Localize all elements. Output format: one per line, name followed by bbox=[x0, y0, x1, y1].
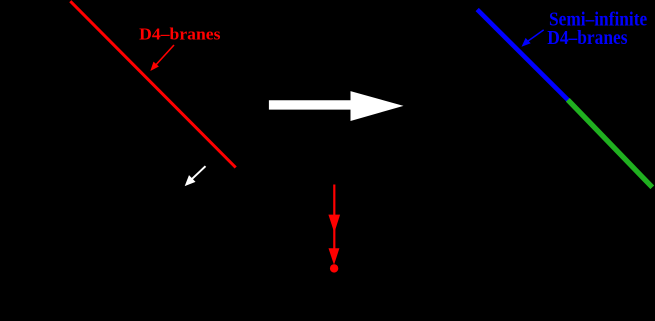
D4-brane red diagonal line bbox=[70, 1, 235, 167]
red double-head down arrow bbox=[328, 185, 340, 273]
svg-text:D4–branes: D4–branes bbox=[139, 25, 221, 44]
svg-text:D4–branes: D4–branes bbox=[547, 28, 628, 49]
red label arrow bbox=[150, 45, 174, 71]
green line continuation bbox=[568, 100, 653, 188]
big white arrow bbox=[269, 91, 404, 121]
small white arrow bbox=[185, 166, 206, 186]
blue label arrow bbox=[522, 30, 544, 47]
blue semi-infinite D4 line bbox=[477, 10, 568, 101]
